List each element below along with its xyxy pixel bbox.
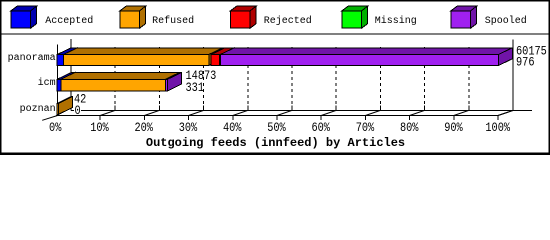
svg-text:60%: 60% bbox=[311, 121, 330, 135]
svg-text:panorama: panorama bbox=[8, 53, 56, 64]
outer border frame bbox=[0, 0, 550, 2]
bar panorama: accepted segment (blue) bbox=[57, 48, 77, 66]
legend cube Missing (green) bbox=[342, 6, 368, 28]
svg-text:50%: 50% bbox=[267, 121, 286, 135]
bar icm: spooled segment (purple) bbox=[166, 73, 182, 92]
svg-text:Missing: Missing bbox=[375, 15, 417, 27]
bar icm: accepted segment (blue) bbox=[57, 73, 75, 92]
legend cube Accepted (blue) bbox=[11, 6, 37, 28]
svg-text:100%: 100% bbox=[485, 121, 510, 135]
axis right corner diagonal bbox=[498, 110, 513, 115]
legend cube Refused (orange) bbox=[120, 6, 146, 28]
svg-text:0%: 0% bbox=[49, 121, 61, 135]
back y-axis vertical bbox=[70, 39, 72, 110]
svg-text:976: 976 bbox=[516, 56, 535, 70]
dashed gridlines 10%-90% (back plane) bbox=[115, 47, 469, 110]
svg-text:10%: 10% bbox=[90, 121, 109, 135]
x-axis 3d ticks bbox=[100, 106, 513, 121]
svg-text:90%: 90% bbox=[444, 121, 463, 135]
svg-text:Refused: Refused bbox=[152, 15, 194, 27]
legend cube Spooled (purple) bbox=[451, 6, 477, 28]
svg-text:331: 331 bbox=[186, 81, 205, 95]
svg-text:70%: 70% bbox=[356, 121, 375, 135]
bar panorama: refused segment (orange) bbox=[64, 48, 223, 66]
svg-text:Rejected: Rejected bbox=[264, 15, 312, 27]
front y-axis vertical bbox=[57, 44, 59, 115]
bar poznan: refused segment (orange, mostly side face) bbox=[57, 97, 72, 115]
svg-text:80%: 80% bbox=[400, 121, 419, 135]
front x-axis line bbox=[56, 115, 498, 117]
bar icm: refused segment (orange) bbox=[61, 73, 180, 92]
svg-text:30%: 30% bbox=[179, 121, 198, 135]
x-axis percent labels bbox=[49, 121, 510, 135]
svg-text:Spooled: Spooled bbox=[485, 15, 527, 27]
svg-text:40%: 40% bbox=[223, 121, 242, 135]
legend separator line bbox=[0, 33, 550, 35]
solid 100% line (right plot edge) bbox=[512, 40, 514, 111]
svg-text:poznan: poznan bbox=[20, 104, 56, 115]
bar panorama: rejected segment (red) bbox=[211, 48, 234, 66]
svg-text:20%: 20% bbox=[134, 121, 153, 135]
svg-text:icm: icm bbox=[38, 77, 56, 89]
svg-text:Outgoing feeds (innfeed) by Ar: Outgoing feeds (innfeed) by Articles bbox=[146, 136, 405, 150]
svg-text:Accepted: Accepted bbox=[45, 15, 93, 27]
bar panorama: spooled segment (purple) bbox=[220, 48, 512, 66]
y-axis 3d extension diagonal bbox=[42, 116, 57, 121]
svg-text:0: 0 bbox=[75, 104, 81, 118]
legend cube Rejected (red) bbox=[231, 6, 257, 28]
back x-axis line bbox=[71, 109, 532, 111]
white gap for value label 0 on axis line bbox=[74, 106, 81, 114]
